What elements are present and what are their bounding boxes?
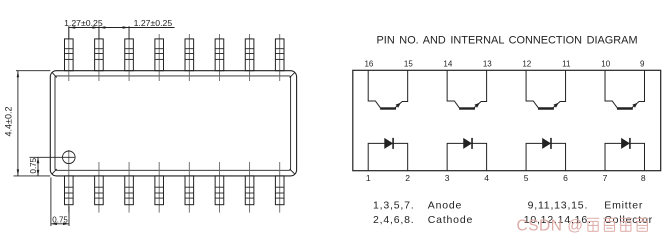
svg-text:1,3,5,7.: 1,3,5,7. [373, 200, 414, 212]
top lead pin 5 [185, 34, 194, 81]
svg-text:PIN NO. AND INTERNAL CONNECTIO: PIN NO. AND INTERNAL CONNECTION DIAGRAM [377, 34, 638, 46]
svg-text:13: 13 [483, 59, 492, 68]
top lead pin 3 [125, 26, 134, 81]
svg-text:2: 2 [405, 173, 410, 183]
svg-text:7: 7 [603, 173, 608, 183]
phototransistor Q1 (pins 15 emitter / 16 collector) [368, 70, 407, 108]
package body outline [50, 71, 296, 176]
top lead pin 7 [245, 34, 254, 81]
svg-text:CSDN @: CSDN @ [517, 218, 584, 235]
svg-text:4: 4 [484, 173, 489, 183]
phototransistor Q2 (pins 13 emitter / 14 collector) [447, 70, 486, 108]
svg-text:0.75: 0.75 [52, 215, 68, 224]
bottom lead pin 5 [185, 162, 194, 213]
phototransistor Q4 (pins 9 emitter / 10 collector) [605, 70, 644, 108]
dimension 0.75 (left edge to pin1, horizontal) [51, 178, 69, 227]
svg-text:6: 6 [563, 173, 568, 183]
diode D3 (anode pin 5 / cathode pin 6) [526, 138, 565, 171]
top lead pin 1 [65, 26, 74, 81]
svg-text:Emitter: Emitter [604, 200, 643, 212]
svg-text:10: 10 [601, 59, 610, 68]
bottom lead pin 1 [65, 150, 74, 213]
svg-text:1.27±0.25: 1.27±0.25 [134, 18, 173, 28]
svg-text:14: 14 [443, 59, 452, 68]
svg-text:Cathode: Cathode [428, 214, 473, 226]
top lead pin 4 [155, 34, 164, 81]
phototransistor Q3 (pins 11 emitter / 12 collector) [526, 70, 565, 108]
svg-text:1.27±0.25: 1.27±0.25 [64, 18, 103, 28]
top lead pin 2 [95, 26, 104, 81]
svg-text:9: 9 [640, 59, 645, 68]
pin-1 indicator circle [63, 151, 76, 164]
svg-text:15: 15 [404, 59, 413, 68]
watermark: CSDN @百态水倾 [517, 218, 649, 235]
svg-text:2,4,6,8.: 2,4,6,8. [373, 214, 414, 226]
svg-text:11: 11 [562, 59, 571, 68]
dimension 4.4±0.2 (body height) [3, 71, 50, 176]
diode D1 (anode pin 1 / cathode pin 2) [368, 138, 407, 171]
svg-text:3: 3 [445, 173, 450, 183]
connection diagram box [353, 70, 661, 170]
bottom lead pin 7 [245, 162, 254, 213]
svg-text:4.4±0.2: 4.4±0.2 [3, 107, 13, 137]
svg-text:Collector: Collector [604, 214, 653, 226]
diode D2 (anode pin 3 / cathode pin 4) [447, 138, 486, 171]
top lead pin 6 [215, 34, 224, 81]
svg-text:5: 5 [524, 173, 529, 183]
dimension 1.27±0.25 (pins 1-2) [64, 18, 103, 39]
svg-text:8: 8 [641, 173, 646, 183]
svg-text:16: 16 [364, 59, 373, 68]
bottom lead pin 2 [95, 162, 104, 213]
dimension 0.75 (pin1 circle to bottom, vertical) [29, 157, 74, 176]
diode D4 (anode pin 7 / cathode pin 8) [605, 138, 644, 171]
bottom lead pin 3 [125, 162, 134, 213]
svg-text:1: 1 [366, 173, 371, 183]
dimension 1.27±0.25 (pins 2-3) [99, 18, 175, 39]
bottom lead pin 8 [275, 162, 284, 213]
svg-text:12: 12 [522, 59, 531, 68]
bottom lead pin 4 [155, 162, 164, 213]
svg-text:0.75: 0.75 [29, 157, 38, 173]
svg-text:Anode: Anode [428, 200, 462, 212]
bottom lead pin 6 [215, 162, 224, 213]
svg-text:9,11,13,15.: 9,11,13,15. [528, 200, 589, 212]
top lead pin 8 [275, 34, 284, 81]
